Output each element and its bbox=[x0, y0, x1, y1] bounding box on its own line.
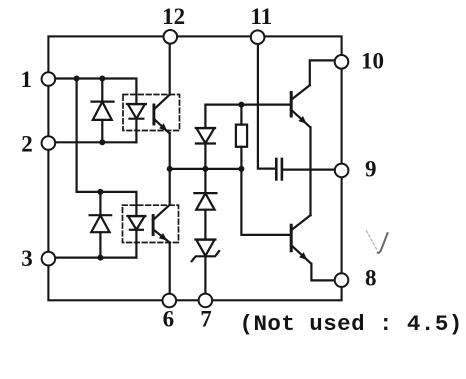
wire: D7 cathode to pin 7 bbox=[204, 256, 206, 293]
junction: D1 bottom bbox=[99, 139, 105, 145]
wire: Q1 collector up and right to pin 10 bbox=[310, 60, 335, 85]
wire: T1 collector riser to pin 12 bbox=[169, 44, 171, 95]
wire: T1 emitter drop to mid bus bbox=[169, 133, 171, 169]
wire: D5 anode stub and Q1 base wire bbox=[205, 105, 291, 128]
wire: pin 3 row bbox=[55, 257, 136, 259]
pin 2 terminal bbox=[42, 136, 56, 150]
pin 12 terminal bbox=[164, 30, 178, 44]
wire: mid bus down and right to Q2 base bbox=[241, 169, 291, 235]
svg-text:11: 11 bbox=[250, 4, 272, 29]
IC body outline bbox=[48, 36, 341, 300]
wire: cell-2 top row to LED D4 anode bbox=[77, 192, 137, 216]
junction: D6 top on mid bus bbox=[202, 166, 208, 172]
wire: pin 2 row bbox=[55, 141, 136, 143]
wire: D1 cathode stub bbox=[101, 79, 103, 102]
svg-text:(Not used : 4.5): (Not used : 4.5) bbox=[240, 311, 463, 337]
wire: LED D4 cathode stub bbox=[135, 230, 137, 258]
phototransistor T2 bbox=[153, 205, 170, 243]
capacitor C1 bbox=[276, 159, 282, 180]
photocoupler PC2 dashed box bbox=[123, 205, 179, 242]
junction: D1 top bbox=[99, 76, 105, 82]
wire: T2 collector riser to mid bus bbox=[169, 169, 171, 205]
wire: LED D2 cathode stub bbox=[135, 119, 137, 143]
wire: mid bus bbox=[170, 168, 242, 170]
junction: R1 bottom on mid bus bbox=[238, 166, 244, 172]
LED D4 bbox=[127, 216, 145, 230]
wire: Q1 emitter to Q2 collector vertical bbox=[309, 127, 311, 215]
svg-text:8: 8 bbox=[365, 266, 377, 291]
junction: R1 top on Q1 base wire bbox=[238, 102, 244, 108]
svg-text:7: 7 bbox=[200, 307, 212, 332]
svg-text:6: 6 bbox=[163, 307, 175, 332]
pencil checkmark bbox=[367, 231, 388, 253]
wire: D6 anode to D7 anode bbox=[204, 210, 206, 240]
wire: D1 anode stub bbox=[101, 120, 103, 142]
svg-text:10: 10 bbox=[361, 49, 384, 74]
wire: D3 anode stub bbox=[99, 232, 101, 257]
pin 9 terminal bbox=[335, 164, 349, 178]
zener diode D7 bbox=[192, 240, 219, 262]
junction: T1 emitter / T2 collector on mid bus bbox=[167, 166, 173, 172]
pin 11 terminal bbox=[251, 30, 265, 44]
junction: pin1 row / cell-2 branch bbox=[74, 76, 80, 82]
wire: R1 top stub bbox=[240, 105, 242, 125]
wire: R1 bottom stub bbox=[240, 147, 242, 169]
photocoupler PC1 dashed box bbox=[123, 95, 180, 131]
pin 7 terminal bbox=[199, 294, 213, 308]
pin 8 terminal bbox=[335, 273, 349, 287]
pin 10 terminal bbox=[335, 55, 349, 69]
LED D2 bbox=[127, 104, 146, 119]
wire: pin 11 drop to capacitor C1 left plate bbox=[258, 44, 276, 168]
diode D3 bbox=[90, 215, 112, 232]
wire: pin 1 row to LED D2 anode bbox=[55, 79, 136, 105]
svg-text:2: 2 bbox=[21, 132, 33, 157]
wire: capacitor C1 right plate to pin 9 bbox=[282, 169, 334, 171]
transistor Q2 bbox=[291, 215, 311, 263]
junction: D3 top bbox=[97, 189, 103, 195]
pin 6 terminal bbox=[163, 294, 177, 308]
wire: D6 cathode stub bbox=[204, 169, 206, 193]
wire: Q2 emitter down and right to pin 8 bbox=[311, 264, 334, 281]
wire: D5 cathode to mid bus bbox=[204, 144, 206, 169]
phototransistor T1 bbox=[154, 95, 170, 134]
pin 1 terminal bbox=[42, 72, 56, 86]
resistor R1 bbox=[236, 125, 247, 147]
svg-text:12: 12 bbox=[162, 4, 185, 29]
diode D5 bbox=[196, 128, 215, 144]
wire: D3 cathode stub bbox=[99, 192, 101, 215]
diode D1 bbox=[92, 102, 114, 120]
wire: T2 emitter drop to pin 6 bbox=[169, 243, 171, 294]
wire: pin1-row branch down to cell-2 row (crosses pin2 row) bbox=[75, 79, 77, 192]
transistor Q1 bbox=[291, 85, 310, 127]
diode D6 bbox=[194, 193, 216, 210]
svg-text:9: 9 bbox=[365, 157, 377, 182]
junction: D3 bottom bbox=[97, 255, 103, 261]
pin 3 terminal bbox=[42, 252, 56, 266]
svg-text:3: 3 bbox=[21, 246, 33, 271]
svg-text:1: 1 bbox=[21, 67, 33, 92]
